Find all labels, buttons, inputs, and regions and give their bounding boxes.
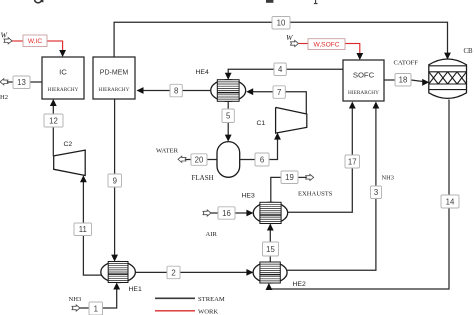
stream box 9	[108, 174, 122, 187]
svg-text:WORK: WORK	[198, 309, 218, 315]
wire stream 18	[384, 80, 425, 82]
svg-text:IC: IC	[59, 68, 67, 77]
svg-text:5: 5	[226, 112, 231, 121]
caption fragment g-bowl	[35, 0, 43, 3]
svg-text:WATER: WATER	[156, 148, 179, 155]
label FLASH	[192, 174, 214, 182]
arrowhead into HE2 left	[246, 269, 253, 276]
stream box 14	[441, 195, 459, 208]
wire stream 6	[240, 137, 278, 160]
arrowhead into PD-MEM right	[137, 87, 144, 94]
stream box 4	[274, 63, 286, 76]
legend work line	[155, 310, 195, 312]
svg-text:6: 6	[260, 155, 264, 164]
svg-text:HIERARCHY: HIERARCHY	[348, 90, 379, 96]
svg-text:3: 3	[374, 188, 378, 197]
label EXHAUSTS	[298, 191, 333, 198]
wire work W-SOFC	[299, 43, 360, 55]
label H2	[0, 94, 8, 101]
work box W,IC	[23, 35, 47, 47]
wire stream 20	[186, 159, 217, 161]
wire stream 15	[269, 228, 271, 262]
heat exchanger HE1	[101, 262, 136, 283]
wire stream 3	[287, 106, 376, 270]
stream box 5	[222, 109, 234, 123]
svg-text:1: 1	[94, 304, 98, 313]
block IC (hierarchy)	[42, 57, 84, 99]
connector H2 outlet	[0, 79, 8, 85]
svg-text:STREAM: STREAM	[198, 296, 225, 303]
stream box 20	[191, 154, 207, 166]
legend label STREAM	[198, 296, 225, 303]
label WATER	[156, 148, 179, 155]
connector WATER outlet	[178, 156, 186, 162]
wire stream 10	[114, 22, 447, 57]
svg-text:CB: CB	[464, 48, 474, 55]
wire stream 19	[271, 177, 306, 202]
arrowhead into CB top	[444, 53, 451, 60]
wire stream 8	[142, 90, 211, 92]
arrowhead into HE3 left	[246, 210, 253, 217]
connector NH3 source	[72, 305, 80, 311]
stream box 3	[371, 186, 382, 199]
legend stream line	[155, 297, 195, 299]
connector EXHAUSTS outlet	[306, 174, 314, 180]
compressor C1	[276, 107, 307, 133]
stream box 8	[170, 84, 182, 97]
block SOFC (hierarchy)	[343, 60, 384, 101]
work box W,SOFC	[308, 39, 345, 50]
svg-text:HE4: HE4	[196, 69, 209, 76]
label W	[1, 31, 9, 40]
arrowhead into FLASH top	[225, 135, 232, 142]
stream box 13	[13, 76, 30, 89]
svg-text:SOFC: SOFC	[353, 71, 375, 80]
label C2	[64, 141, 73, 148]
turbine C2	[54, 150, 85, 175]
svg-text:10: 10	[277, 19, 286, 28]
label NH3 feed	[69, 296, 83, 303]
label NH3 hot	[382, 175, 394, 182]
svg-text:9: 9	[113, 176, 117, 185]
svg-text:14: 14	[446, 197, 455, 206]
stream box 6	[255, 153, 269, 166]
svg-text:W,IC: W,IC	[28, 38, 43, 45]
svg-text:PD-MEM: PD-MEM	[100, 70, 129, 77]
svg-text:AIR: AIR	[206, 231, 218, 238]
connector W source SOFC	[291, 40, 299, 46]
svg-text:15: 15	[266, 245, 275, 254]
wire stream 1	[80, 287, 117, 308]
caption fragment p-stem	[314, 0, 318, 4]
wire stream 14	[269, 100, 449, 290]
svg-text:HE2: HE2	[293, 281, 306, 288]
stream box 18	[395, 74, 411, 87]
svg-text:C1: C1	[257, 120, 266, 127]
label HE2	[293, 281, 306, 288]
heat exchanger HE4	[211, 80, 246, 102]
svg-text:HE1: HE1	[129, 286, 142, 293]
stream box 7	[273, 86, 285, 99]
wire stream 4	[228, 69, 343, 75]
stream box 2	[167, 266, 180, 279]
svg-text:4: 4	[278, 65, 283, 74]
wire stream 9	[114, 99, 116, 257]
arrowhead into SOFC top	[356, 53, 363, 60]
heat exchanger HE3	[253, 202, 287, 223]
svg-text:W,SOFC: W,SOFC	[313, 41, 339, 48]
arrowhead into HE2 bottom	[266, 283, 273, 290]
svg-text:7: 7	[277, 88, 281, 97]
svg-text:2: 2	[171, 268, 175, 277]
label HE4	[196, 69, 209, 76]
svg-text:18: 18	[399, 76, 408, 85]
flash drum FLASH	[217, 142, 240, 178]
arrowhead into HE1 top	[111, 255, 118, 262]
svg-text:12: 12	[49, 116, 58, 125]
arrowhead into HE3 bottom	[267, 224, 274, 231]
arrowhead into C2 bottom	[80, 175, 87, 182]
wire stream 7	[251, 92, 306, 114]
stream box 10	[272, 17, 290, 30]
wire stream 2	[135, 271, 249, 273]
svg-text:CATOFF: CATOFF	[394, 60, 419, 67]
stream box 17	[345, 155, 360, 168]
heat exchanger HE2	[253, 262, 287, 283]
svg-text:13: 13	[17, 78, 26, 87]
caption fragment bold dash	[266, 0, 273, 3]
label W SOFC	[286, 33, 294, 42]
label CATOFF	[394, 60, 419, 67]
svg-text:20: 20	[195, 155, 204, 164]
wire stream 11	[83, 180, 101, 275]
label HE1	[129, 286, 142, 293]
arrowhead into SOFC bottom right	[373, 102, 380, 109]
arrowhead into C1 bottom	[274, 133, 281, 140]
arrowhead into HE4 right	[246, 88, 253, 95]
svg-text:NH3: NH3	[382, 175, 394, 182]
arrowhead into HE1 bottom	[113, 283, 120, 290]
label HE3	[242, 193, 255, 200]
catalytic burner CB	[429, 59, 467, 98]
svg-text:16: 16	[222, 209, 231, 218]
svg-text:FLASH: FLASH	[192, 174, 214, 182]
svg-text:C2: C2	[64, 141, 73, 148]
stream box 11	[74, 223, 92, 236]
arrowhead into HE4 top	[225, 73, 232, 80]
svg-text:HIERARCHY: HIERARCHY	[99, 87, 130, 93]
svg-text:HIERARCHY: HIERARCHY	[48, 87, 79, 93]
stream box 1	[89, 302, 103, 315]
label AIR	[206, 231, 218, 238]
block PD-MEM (hierarchy)	[93, 57, 135, 99]
svg-text:HE3: HE3	[242, 193, 255, 200]
svg-text:NH3: NH3	[69, 296, 83, 303]
arrowhead into IC bottom	[50, 99, 57, 106]
arrowhead into CB left	[422, 79, 429, 86]
wire stream 17	[288, 106, 353, 212]
wire stream 16	[211, 212, 250, 214]
label C1	[257, 120, 266, 127]
svg-text:8: 8	[174, 86, 178, 95]
wire work W-IC	[12, 41, 63, 52]
svg-text:19: 19	[285, 173, 294, 182]
arrowhead into SOFC bottom left	[349, 102, 356, 109]
wire stream 12	[52, 104, 54, 156]
svg-text:H2: H2	[0, 94, 8, 101]
wire stream 5	[227, 101, 229, 137]
connector W source	[4, 38, 12, 44]
wire stream 13	[8, 81, 42, 83]
stream box 19	[281, 171, 298, 184]
svg-text:11: 11	[79, 225, 87, 234]
stream box 16	[218, 207, 235, 219]
label CB	[464, 48, 474, 55]
stream box 12	[44, 114, 63, 127]
connector AIR source	[203, 210, 211, 216]
arrowhead into IC top	[59, 50, 66, 57]
stream box 15	[263, 242, 279, 256]
svg-text:EXHAUSTS: EXHAUSTS	[298, 191, 333, 198]
legend label WORK	[198, 309, 218, 315]
svg-text:17: 17	[348, 157, 357, 166]
